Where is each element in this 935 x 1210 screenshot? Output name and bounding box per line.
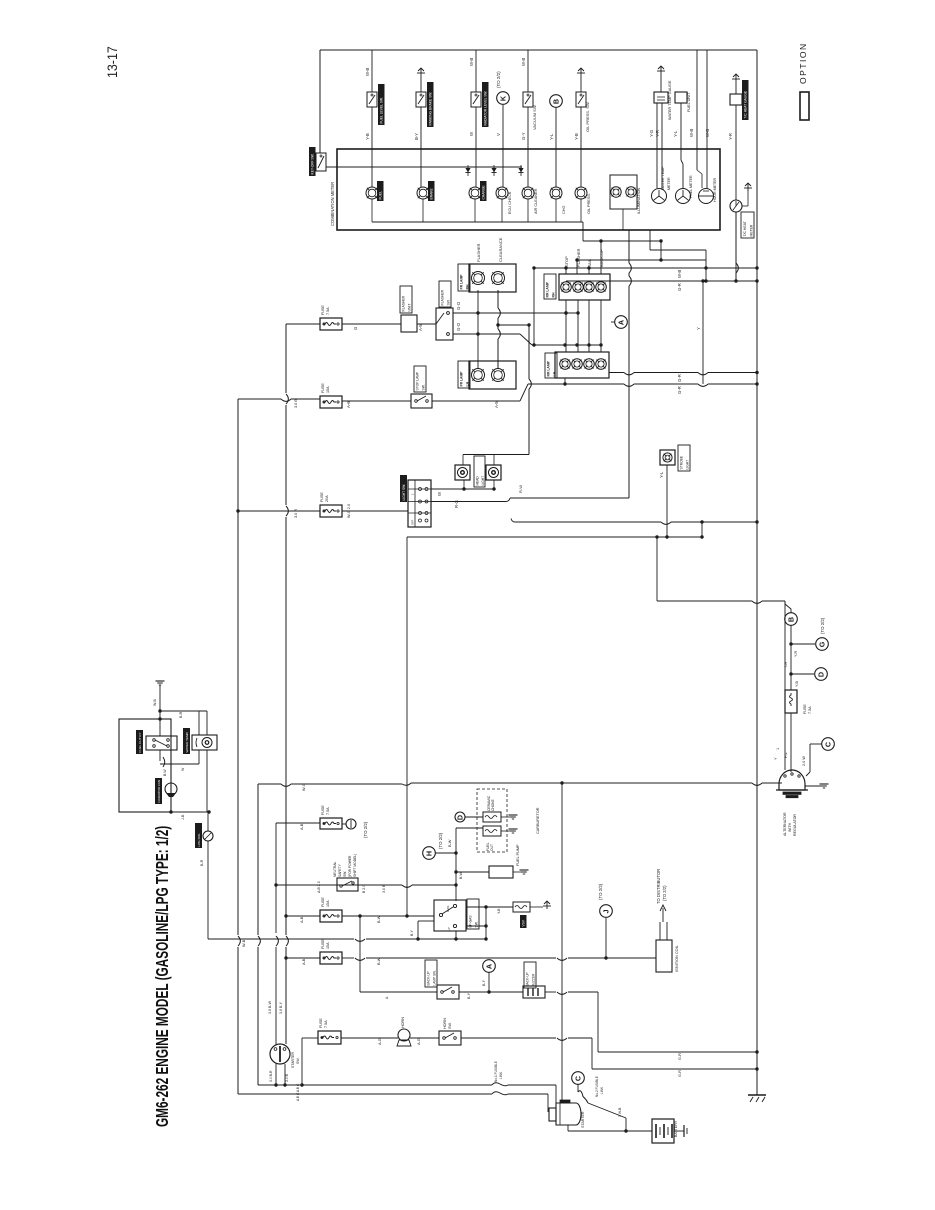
svg-text:ALTERNATOR: ALTERNATOR [783,812,787,836]
svg-text:RH: RH [466,284,470,289]
svg-text:3.0 B-Y: 3.0 B-Y [279,1001,283,1014]
svg-text:Y-B: Y-B [795,681,799,687]
svg-text:A-G: A-G [378,1038,382,1045]
svg-text:STOP: STOP [564,256,569,267]
svg-text:STARTER: STARTER [581,1111,585,1128]
svg-text:FUSE: FUSE [320,492,324,502]
svg-text:15A: 15A [326,386,330,393]
svg-text:Y-B: Y-B [497,908,501,914]
svg-text:No.1 FUSIBLE: No.1 FUSIBLE [494,1061,498,1082]
svg-text:3 W-B: 3 W-B [618,1107,622,1117]
svg-text:ECU CHECK: ECU CHECK [508,191,512,214]
svg-text:3.0 B: 3.0 B [294,399,298,408]
svg-text:FR LAMP: FR LAMP [460,274,464,290]
svg-text:FLASHER: FLASHER [576,248,581,267]
svg-text:FUEL UNIT: FUEL UNIT [687,92,691,112]
svg-text:3.0 B-R: 3.0 B-R [269,1070,273,1082]
svg-text:LIGHT: LIGHT [686,460,690,470]
svg-text:IGNITION COIL: IGNITION COIL [675,945,679,972]
svg-text:A-5: A-5 [418,324,423,331]
svg-text:OUT: OUT [490,844,494,851]
svg-text:BACK-UP: BACK-UP [427,971,431,985]
svg-text:B-Y: B-Y [410,930,414,937]
svg-text:Y-R: Y-R [728,133,733,140]
svg-text:UNIT: UNIT [408,304,412,312]
svg-text:(TO 2/2): (TO 2/2) [496,71,501,88]
svg-text:STROBE: STROBE [680,455,684,469]
svg-text:Y-L: Y-L [659,471,664,478]
svg-text:FUSE: FUSE [319,1018,323,1028]
svg-text:7.5A: 7.5A [326,807,330,815]
svg-text:A: A [485,964,494,969]
svg-text:G-O: G-O [456,322,461,331]
svg-text:BACK-UP: BACK-UP [526,972,530,986]
svg-text:LIGHT: LIGHT [481,476,485,486]
svg-text:G-R: G-R [678,1070,682,1077]
svg-text:FUEL: FUEL [379,191,383,200]
svg-text:HEAD: HEAD [475,476,479,486]
svg-text:Y-G: Y-G [649,129,654,137]
svg-text:A-B: A-B [300,823,304,830]
svg-text:RR LAMP: RR LAMP [547,360,551,376]
svg-text:C: C [574,1076,583,1081]
svg-text:FUSE: FUSE [321,897,325,907]
svg-text:B-W: B-W [448,839,452,847]
svg-text:SAFETY: SAFETY [338,863,342,877]
svg-text:LH: LH [553,371,557,376]
svg-text:OFF: OFF [411,519,415,525]
svg-text:BATTERY: BATTERY [674,1120,678,1137]
svg-text:(TO 2/2): (TO 2/2) [662,885,667,901]
svg-text:B-W: B-W [163,769,167,776]
svg-text:Y: Y [696,327,701,330]
svg-text:RH: RH [552,292,556,297]
svg-text:B-Y: B-Y [467,992,471,999]
svg-text:B: B [552,99,561,104]
svg-text:W-B: W-B [469,58,474,66]
svg-text:B-W: B-W [377,915,381,923]
svg-text:W-B: W-B [521,58,526,66]
svg-text:METER: METER [750,224,754,236]
svg-text:HORN: HORN [443,1018,447,1029]
svg-text:FUEL CUT RY: FUEL CUT RY [138,732,142,752]
svg-text:B-W: B-W [459,872,463,880]
svg-text:B-R: B-R [200,859,204,866]
svg-text:3.0 B-W: 3.0 B-W [268,1000,272,1014]
svg-text:VACUUM SW.: VACUUM SW. [532,105,537,130]
svg-text:CARBURETOR: CARBURETOR [536,807,540,834]
svg-text:PARKING BRAKE SW.: PARKING BRAKE SW. [429,92,433,126]
svg-text:FUEL PUMP: FUEL PUMP [516,844,520,866]
svg-text:G-R: G-R [678,1053,682,1060]
svg-text:LH: LH [466,381,470,386]
svg-text:7.5A: 7.5A [326,307,330,315]
svg-text:A-6: A-6 [346,401,351,408]
svg-text:FUSE: FUSE [321,305,325,315]
svg-text:REGULATOR: REGULATOR [793,814,797,836]
svg-text:Y-R: Y-R [794,651,798,657]
svg-text:FUSE: FUSE [321,383,325,393]
svg-text:METER: METER [667,177,671,190]
svg-text:COMBINATION METER: COMBINATION METER [330,182,335,226]
svg-text:K: K [499,95,508,101]
svg-text:(TO 2/2): (TO 2/2) [438,832,443,849]
svg-text:OIL PRESS.: OIL PRESS. [587,193,591,214]
svg-text:W-B: W-B [705,129,710,137]
svg-text:SW.: SW. [422,384,426,390]
svg-text:A-B: A-B [300,916,304,923]
svg-text:B: B [787,617,796,622]
svg-text:W-B: W-B [153,698,157,706]
svg-text:RADIATOR FAN: RADIATOR FAN [157,780,161,803]
svg-text:SW.: SW. [343,871,347,877]
svg-text:G-Y: G-Y [521,132,526,140]
svg-text:SW.: SW. [475,921,479,927]
svg-text:(TO 2/2): (TO 2/2) [363,821,368,838]
svg-text:D: D [456,815,465,820]
svg-text:1: 1 [776,748,780,750]
svg-text:R-G: R-G [454,499,459,508]
svg-text:W-B: W-B [242,939,246,947]
svg-text:BACK-UP: BACK-UP [599,249,604,267]
svg-text:Y-L: Y-L [549,133,554,140]
svg-text:No.2 FUSIBLE: No.2 FUSIBLE [595,1076,599,1097]
svg-text:W-B: W-B [365,68,370,76]
svg-text:(FOR POWER: (FOR POWER [348,855,352,877]
svg-text:LAMP SW.: LAMP SW. [433,970,437,985]
svg-text:SW.: SW. [448,1022,452,1029]
svg-text:Y-B: Y-B [365,133,370,140]
svg-text:SW.: SW. [447,299,451,305]
svg-text:G-R: G-R [677,283,682,291]
svg-text:HORN: HORN [401,1017,405,1028]
svg-text:FLASHER: FLASHER [476,243,481,262]
svg-text:VSV: VSV [522,919,526,926]
svg-text:B-Y: B-Y [414,133,419,140]
svg-text:15A: 15A [326,942,330,949]
svg-text:TAIL: TAIL [587,258,592,267]
svg-text:OPTION: OPTION [798,42,808,84]
svg-text:LPG SOL: LPG SOL [197,833,201,847]
svg-text:7.5A: 7.5A [808,706,812,714]
svg-text:Y-L: Y-L [673,130,678,137]
svg-text:BUZZER: BUZZER [532,973,536,986]
svg-text:SW.: SW. [296,1058,300,1064]
svg-text:FUSE: FUSE [321,939,325,949]
svg-text:A B C: A B C [296,1083,300,1092]
svg-text:CHARGE: CHARGE [482,185,486,200]
svg-text:3.0 R: 3.0 R [294,509,298,518]
svg-text:FUEL METER: FUEL METER [689,175,693,198]
svg-text:RADIATOR LEVEL SW.: RADIATOR LEVEL SW. [484,91,488,126]
svg-text:D: D [817,672,826,677]
svg-text:13-17: 13-17 [105,46,121,78]
svg-text:T/C HEAT GAUGE: T/C HEAT GAUGE [744,90,748,118]
svg-text:FUSE: FUSE [321,805,325,815]
svg-text:A-G: A-G [417,1038,421,1045]
svg-text:G: G [818,641,827,647]
svg-text:J: J [602,910,611,914]
svg-text:BRAKE: BRAKE [430,188,434,200]
svg-text:SHIFT MODEL): SHIFT MODEL) [353,854,357,877]
svg-text:STARTER: STARTER [291,1052,295,1068]
svg-text:CHG: CHG [562,206,566,214]
svg-text:J-B: J-B [181,814,185,820]
svg-text:3.0 B: 3.0 B [382,884,386,893]
svg-text:WATER TEMP GAUGE: WATER TEMP GAUGE [668,80,672,120]
svg-text:A-5: A-5 [494,401,499,408]
svg-text:B-R: B-R [179,711,183,718]
svg-text:FLASHER: FLASHER [441,289,445,305]
svg-text:G-R: G-R [677,386,682,394]
svg-text:3.0 B: 3.0 B [285,1073,289,1082]
svg-text:A-B 2.0: A-B 2.0 [317,881,321,893]
svg-text:F-L: F-L [784,752,788,758]
svg-text:AIR CLEANER: AIR CLEANER [534,188,538,214]
svg-text:A: A [617,320,626,325]
svg-text:Y-B: Y-B [574,133,579,140]
svg-text:NEUTRAL: NEUTRAL [333,861,337,877]
svg-text:RR LAMP: RR LAMP [546,281,550,297]
svg-text:V: V [496,133,501,136]
svg-text:Y-R: Y-R [655,130,660,137]
svg-text:7.5A: 7.5A [324,1020,328,1028]
svg-text:2.0 W: 2.0 W [802,756,806,766]
svg-text:B-Y: B-Y [482,979,486,986]
svg-text:B-W: B-W [377,957,381,965]
svg-text:20A: 20A [325,495,329,502]
svg-text:WITH: WITH [788,822,792,832]
svg-text:Y-R: Y-R [784,662,788,668]
svg-text:(TO 2/2): (TO 2/2) [820,617,825,634]
svg-text:LIGHT SW.: LIGHT SW. [402,484,406,501]
svg-text:15A: 15A [326,900,330,907]
svg-text:G-R: G-R [677,374,682,382]
svg-text:(TO 2/2): (TO 2/2) [598,883,603,900]
svg-text:W-B: W-B [677,270,682,278]
svg-text:LINK: LINK [499,1071,503,1079]
svg-text:STOP LAMP: STOP LAMP [416,371,420,391]
svg-text:ILLUMINATION: ILLUMINATION [637,187,641,214]
svg-text:G-O: G-O [456,301,461,310]
svg-text:FLASHER: FLASHER [402,295,406,311]
svg-text:GM6-262 ENGINE MODEL (GASOLINE: GM6-262 ENGINE MODEL (GASOLINE/LPG TYPE:… [153,826,173,1127]
svg-text:TO DISTRIBUTOR: TO DISTRIBUTOR [656,869,661,904]
svg-text:B 2.0: B 2.0 [362,885,366,893]
svg-text:HOUR METER: HOUR METER [713,177,717,202]
svg-text:KEY-OFF SW.: KEY-OFF SW. [311,153,315,174]
svg-text:FUSE: FUSE [803,704,807,714]
svg-text:OIL PRESS. SW.: OIL PRESS. SW. [585,101,590,132]
svg-text:T/C HEAT: T/C HEAT [743,221,747,236]
svg-text:W-B: W-B [689,129,694,137]
svg-text:R-W: R-W [518,485,523,493]
svg-text:WATER TEMP.: WATER TEMP. [185,732,189,753]
svg-text:A B C: A B C [296,1092,300,1101]
svg-text:FUEL LEVEL SW.: FUEL LEVEL SW. [380,97,384,123]
svg-text:W-G: W-G [302,783,306,791]
svg-text:H: H [425,851,434,856]
svg-text:A-B: A-B [302,958,306,965]
svg-text:GAS: GAS [446,906,450,912]
svg-text:FR LAMP: FR LAMP [460,371,464,387]
svg-text:CHOKE: CHOKE [491,798,495,811]
svg-text:LP: LP [447,927,451,931]
svg-text:WATER TEMP.: WATER TEMP. [661,166,665,190]
svg-text:CLEARANCE: CLEARANCE [498,237,503,262]
svg-text:C: C [824,742,833,747]
svg-text:LINK: LINK [600,1086,604,1094]
